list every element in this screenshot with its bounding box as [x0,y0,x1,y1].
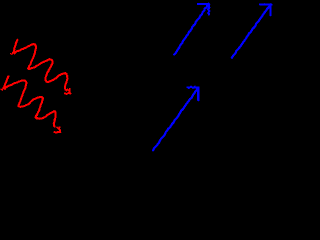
photon P2 arrowhead bottom stroke [54,132,60,133]
photoelectric-effect diagram: red photon squiggles hit surface, blue electron arrows leave [0,0,275,198]
photon P1 cusp tick marks [10,52,15,54]
electron arrow E1 head right stroke (core) [208,4,210,15]
electron arrow E3 head right stroke [197,87,199,100]
electron arrow E2 shaft [232,4,271,57]
electron arrow E2 head right stroke [269,4,271,15]
photon P2 start hook stroke [4,76,9,87]
photon P1 arrowhead right stroke [69,89,72,94]
photon P1 arrowhead bottom stroke [65,92,71,95]
photon wavy arrow P1 body [14,44,67,90]
electron arrow E3 head top stroke (core) [187,86,199,88]
electron arrow E1 head right stroke (ticks) [207,4,210,15]
electron arrow E3 shaft [153,88,198,151]
electron arrow E3 head top stroke (ticks) [187,86,199,89]
photon P1 start hook stroke [14,40,18,52]
electron arrow E1 shaft [174,4,208,55]
photon P1 arrowhead inner tick [67,89,68,90]
photon P2 cusp tick marks [1,87,6,90]
photon P2 arrowhead inner tick [57,127,58,128]
photon P2 arrowhead right stroke [59,127,60,132]
electron arrow E2 head top stroke [260,3,272,5]
photon wavy arrow P2 body [4,80,56,126]
electron arrow E1 head top stroke [198,3,210,5]
